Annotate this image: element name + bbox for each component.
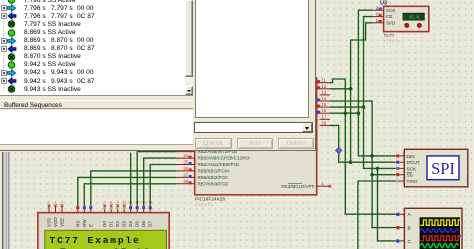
oscilloscope pin stubs [395, 214, 404, 241]
svg-text:9: 9 [117, 200, 119, 204]
wire SCK row to scope C [378, 168, 396, 241]
U1 right pin state squares [317, 80, 320, 126]
wires: all schematic nets [78, 10, 395, 249]
oscilloscope trace channel B (blue sine) [421, 229, 459, 232]
svg-text:C: C [408, 239, 412, 245]
svg-text:TC77: TC77 [384, 33, 395, 38]
svg-text:DIN: DIN [407, 154, 415, 159]
svg-text:TC77 Example: TC77 Example [50, 235, 141, 246]
svg-text:11: 11 [322, 78, 327, 83]
wire PIC pin16 branch [330, 112, 358, 114]
U3 pin numbers [376, 5, 379, 23]
combo box [194, 122, 314, 134]
svg-text:<TEXT>: <TEXT> [384, 39, 401, 44]
buffered sequences empty list [0, 110, 193, 145]
svg-text:RW: RW [82, 219, 87, 227]
U1 left pins 23-28 stubs [176, 152, 195, 184]
svg-text:RS: RS [75, 221, 80, 227]
LCD pin stubs (vertical) [49, 206, 150, 213]
wire SPI TRIG down off-sheet [358, 181, 395, 249]
svg-text:16: 16 [322, 108, 327, 113]
wire U3 CE to SPI SCK row [364, 17, 396, 169]
wire PIC pin11 to scope A [330, 79, 395, 214]
svg-text:SPI: SPI [431, 159, 455, 178]
U3 pin state squares [379, 7, 382, 23]
svg-text:RB6/KBI2/PGC: RB6/KBI2/PGC [198, 175, 230, 180]
svg-text:15: 15 [322, 102, 327, 107]
svg-text:24: 24 [183, 153, 188, 158]
svg-text:27: 27 [183, 172, 188, 177]
svg-text:18: 18 [322, 120, 327, 125]
SPI pin labels [407, 154, 420, 184]
U1 right pins 11-18 stubs [317, 83, 330, 126]
wire PIC pin23 to LCD D5 [137, 152, 176, 206]
U1 right pin numbers 11-18 [322, 78, 327, 126]
wire PIC pin18 to SPI DOUT [330, 125, 395, 162]
oscilloscope channel labels [408, 212, 412, 245]
svg-text:VSS: VSS [47, 218, 52, 227]
vertical scrollbar [185, 0, 194, 95]
svg-text:PIC18F24K20: PIC18F24K20 [195, 197, 225, 203]
svg-text:D6: D6 [141, 221, 146, 227]
svg-text:SS: SS [407, 173, 413, 178]
wire U3 SCK to SPI DIN (via PIC SCK trunk) [358, 10, 395, 156]
svg-text:14: 14 [322, 96, 327, 101]
node marker (blue diamond) [336, 147, 342, 153]
svg-text:CE: CE [386, 14, 392, 19]
LCD display LCD1 (LM016L) [38, 213, 169, 249]
svg-text:D5: D5 [135, 221, 140, 227]
U1 left pin names [198, 149, 252, 186]
svg-text:28: 28 [183, 179, 188, 184]
LCD pin numbers 1-14 [48, 200, 152, 204]
wire hidden PIC pin22 to LCD D4 [130, 153, 132, 206]
svg-text:SCK: SCK [407, 166, 418, 171]
svg-text:RB7/KBI3/PGD: RB7/KBI3/PGD [198, 181, 230, 186]
oscilloscope instrument [404, 208, 462, 249]
SPI debugger instrument [404, 149, 468, 187]
wire PIC pin28 to LCD RW [84, 184, 176, 206]
svg-text:D2: D2 [115, 221, 120, 227]
wire PIC pin26 to LCD E [91, 171, 176, 206]
wire PIC pin14 to scope B [330, 101, 395, 228]
svg-text:D1: D1 [109, 221, 114, 227]
buttons row [195, 138, 232, 149]
oscilloscope trace channel A (yellow square wave) [421, 220, 461, 225]
svg-text:TRIG: TRIG [407, 179, 419, 184]
svg-text:D3: D3 [122, 221, 127, 227]
LCD unconnected pin crosses [48, 204, 126, 207]
SPI pin state squares [396, 154, 399, 182]
U1 pin RE3/MCLR/VPP label [281, 184, 314, 189]
oscilloscope trace channel C (red square wave) [421, 236, 461, 241]
svg-text:VEE: VEE [60, 218, 65, 227]
wire junction dots [344, 87, 380, 177]
svg-text:D7: D7 [148, 221, 153, 227]
svg-text:17: 17 [322, 114, 327, 119]
svg-text:3: 3 [61, 200, 63, 204]
Buffered Sequences header bar [0, 100, 193, 109]
right capture listbox [195, 0, 309, 118]
U3 pin stubs [372, 10, 384, 23]
svg-text:B: B [408, 226, 411, 232]
svg-text:7: 7 [104, 200, 106, 204]
LCD pin labels (vertical) [47, 217, 153, 227]
oscilloscope trace channel D (green sine) [421, 243, 459, 247]
svg-text:SCK: SCK [386, 8, 396, 13]
wire PIC pin24 to LCD D6 [144, 158, 176, 206]
svg-text:26: 26 [183, 166, 188, 171]
wire PIC pin27 to LCD RS [78, 177, 176, 205]
wire U3 SI/O to DOUT join [351, 23, 372, 162]
svg-text:13: 13 [322, 90, 327, 95]
svg-text:RE3/MCLR/VPP: RE3/MCLR/VPP [281, 184, 314, 189]
U1 pin 1 MCLR stub [317, 181, 332, 187]
svg-text:RB3/AN9/CCP2B/C12IN3-: RB3/AN9/CCP2B/C12IN3- [198, 156, 252, 161]
U3 pin names [386, 8, 396, 25]
svg-text:<TEXT>: <TEXT> [195, 203, 213, 209]
wire PIC pin25 to LCD D7 [150, 165, 176, 206]
oscilloscope pin state squares [396, 213, 399, 243]
svg-text:25: 25 [183, 160, 188, 165]
svg-text:VDD: VDD [53, 217, 58, 227]
svg-text:RB5/KBI1/PGM: RB5/KBI1/PGM [198, 169, 230, 174]
svg-text:D0: D0 [102, 221, 107, 227]
wire PIC pin15 branch [330, 106, 364, 108]
svg-text:DOUT: DOUT [407, 160, 420, 165]
svg-text:D4: D4 [128, 221, 133, 227]
wire PIC pin12 branch [330, 88, 351, 90]
svg-text:E: E [88, 224, 93, 227]
temperature sensor U3 TC77 [380, 1, 429, 32]
wire SPI SS branch [372, 174, 395, 176]
svg-text:RB4/AN11/KBI0/P1D: RB4/AN11/KBI0/P1D [198, 162, 241, 167]
svg-text:25.0: 25.0 [408, 14, 419, 20]
svg-text:8: 8 [110, 200, 112, 204]
svg-text:12: 12 [322, 84, 327, 89]
U1 left pin state squares [189, 149, 192, 184]
svg-text:SI/O: SI/O [386, 20, 396, 25]
tree list panel [0, 0, 193, 96]
LCD connected pin state squares [76, 206, 151, 209]
sheet border (left edge of schematic page) [0, 152, 10, 249]
svg-text:1: 1 [48, 200, 50, 204]
U1 left pin numbers 23-28 [183, 147, 188, 184]
svg-text:10: 10 [122, 200, 126, 204]
SPI pin stubs [395, 156, 404, 181]
svg-text:2: 2 [55, 200, 57, 204]
microcontroller U1 PIC18F24K20 body [195, 78, 317, 195]
